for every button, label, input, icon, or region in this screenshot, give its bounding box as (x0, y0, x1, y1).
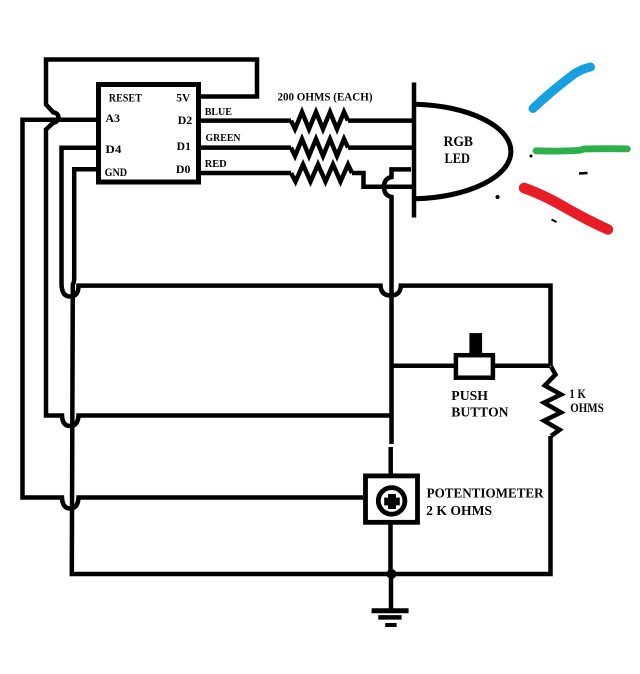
push button SW1 body (456, 355, 493, 378)
wire potentiometer bottom to ground rail (388, 524, 393, 575)
speck near green stroke (530, 155, 533, 158)
wire RED lead from D0 (201, 171, 291, 176)
svg-text:A3: A3 (105, 113, 120, 125)
wire D4 net: from D4 pin left, down, hop, right to 1K/push-button column (62, 148, 551, 366)
wire BLUE lead to LED (348, 118, 412, 123)
marker stroke green (536, 149, 627, 151)
svg-text:POTENTIOMETER: POTENTIOMETER (427, 487, 545, 502)
wire A3 net: from A3 pin left, down, bottom to potentiometer left (23, 120, 364, 509)
resistor R-blue 200 ohms (291, 112, 348, 129)
LED D1 flat bar (412, 83, 417, 218)
push button SW1 right wire (495, 364, 550, 369)
push button SW1 left wire (391, 364, 455, 369)
svg-text:RED: RED (205, 158, 227, 170)
wire GREEN lead from D1 (201, 145, 291, 150)
svg-text:RGB: RGB (444, 134, 474, 150)
svg-text:2 K OHMS: 2 K OHMS (426, 504, 492, 519)
wire GREEN lead to LED (348, 145, 412, 150)
wire LED common lead with hop over red wire, down mid column (384, 169, 411, 444)
LED D1 dome (416, 104, 511, 199)
svg-text:OHMS: OHMS (570, 401, 604, 415)
junction dot (387, 569, 397, 579)
svg-text:5V: 5V (176, 93, 191, 105)
resistor R2 1K vertical (544, 367, 561, 437)
wire 5V net: top loop from 5V pin, down left side, to mid tee (46, 60, 391, 427)
marker stroke blue (533, 67, 591, 109)
resistor R-red 200 ohms (291, 165, 352, 182)
wire small gap segment into potentiometer top (388, 447, 393, 474)
speck dash right of LED (579, 172, 588, 175)
svg-text:PUSH: PUSH (451, 388, 488, 403)
resistor R-green 200 ohms (291, 139, 348, 156)
speck below green (552, 220, 557, 223)
svg-text:LED: LED (445, 151, 471, 167)
svg-text:1 K: 1 K (569, 387, 586, 401)
svg-text:200 OHMS (EACH): 200 OHMS (EACH) (278, 92, 373, 104)
ground bar 2 (378, 615, 401, 620)
potentiometer RV1 circle (378, 488, 405, 515)
svg-text:D0: D0 (176, 164, 191, 176)
wire BLUE lead from D2 (201, 118, 291, 123)
potentiometer RV1 plus (384, 494, 400, 509)
potentiometer RV1 body (366, 476, 418, 522)
ground bar 1 (372, 608, 409, 613)
svg-text:D4: D4 (105, 144, 121, 156)
ground bar 3 (385, 623, 396, 627)
marker stroke red (524, 188, 608, 230)
svg-text:GND: GND (105, 167, 128, 179)
wire GND net: from GND pin left, down to bottom rail, right, up right side (72, 169, 551, 574)
svg-text:D2: D2 (178, 115, 193, 127)
svg-text:GREEN: GREEN (206, 132, 241, 144)
svg-text:BUTTON: BUTTON (451, 404, 508, 419)
svg-text:D1: D1 (177, 141, 191, 153)
chip U1 body (99, 85, 199, 183)
wire RED lead stepping down to LED (352, 173, 412, 187)
svg-text:RESET: RESET (109, 93, 142, 105)
push button SW1 actuator (469, 333, 482, 354)
speck dot below LED arc (496, 195, 500, 199)
ground symbol stem (389, 574, 394, 609)
svg-text:BLUE: BLUE (205, 106, 232, 118)
